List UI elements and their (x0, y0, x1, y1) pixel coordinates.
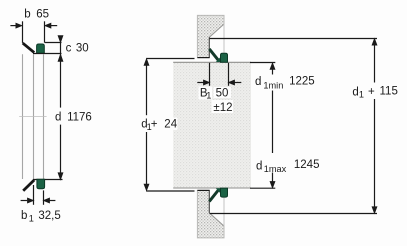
svg-text:1225: 1225 (289, 75, 315, 87)
text label d1+ 24 (141, 119, 177, 132)
text knockout pm12 (212, 100, 234, 113)
text label d1min 1225 (255, 75, 315, 90)
svg-text:1245: 1245 (294, 159, 320, 171)
seal fill bottom-right figure (216, 188, 221, 193)
cylinder silhouette line inner (43, 54, 45, 179)
seal lip top-right figure (209, 49, 219, 61)
text knockout 50 (214, 87, 232, 98)
extension line B1 right (228, 63, 230, 86)
svg-text:d: d (256, 160, 262, 172)
svg-text:+: + (151, 119, 158, 131)
svg-text:1176: 1176 (67, 112, 92, 124)
text label c 30 (66, 42, 89, 54)
seal lip bottom-left figure (23, 180, 34, 191)
text label d 1176 (55, 112, 92, 124)
svg-text:65: 65 (36, 9, 49, 21)
text label d1 + 115 (352, 85, 397, 99)
svg-text:50: 50 (216, 88, 229, 100)
extension line b right (44, 21, 46, 42)
cylinder silhouette line middle (33, 54, 35, 179)
dimension d1min-d1max line (270, 63, 275, 188)
svg-text:24: 24 (164, 119, 177, 131)
extension line d1min (250, 62, 275, 64)
seal lip bottom-right figure (209, 190, 219, 202)
extension line d1+115 bottom (210, 213, 378, 215)
seal body top-left figure (37, 44, 45, 53)
extension line b left (22, 21, 24, 43)
svg-text:c: c (66, 42, 72, 54)
text label B1 50 (200, 88, 228, 101)
svg-text:30: 30 (76, 42, 89, 54)
dimension d1+115 line (372, 39, 377, 214)
housing bore silhouette bottom (223, 197, 225, 226)
svg-text:±12: ±12 (213, 102, 232, 114)
seal body bottom-left figure (37, 179, 45, 188)
svg-text:+: + (368, 86, 375, 98)
extension line c top (45, 42, 62, 44)
svg-text:1: 1 (29, 214, 34, 224)
dimension b1 arrows (21, 198, 56, 203)
svg-text:d: d (255, 76, 261, 88)
seal bottom edge and extension c bottom (33, 53, 62, 55)
svg-text:115: 115 (380, 85, 398, 97)
svg-text:b: b (24, 9, 30, 21)
extension line B1 left (209, 63, 211, 86)
seal body bottom-right figure (221, 188, 228, 197)
svg-text:b: b (21, 210, 27, 222)
seal lip top-left figure (23, 43, 35, 53)
dimension c arrows (58, 36, 63, 62)
svg-text:1min: 1min (263, 80, 283, 90)
extension line b1 left (33, 185, 35, 205)
extension line d bottom (33, 179, 63, 181)
cylinder silhouette line outer (22, 54, 24, 179)
dimension B1 arrows (197, 80, 241, 85)
text label b 65 (24, 9, 49, 21)
svg-text:1: 1 (359, 90, 364, 100)
diameter tick (19, 116, 46, 118)
svg-text:32,5: 32,5 (38, 210, 60, 222)
dimension d1+24 line (144, 59, 149, 191)
text label d1max 1245 (256, 159, 319, 174)
seal fill top-right figure (216, 57, 221, 62)
housing block top (197, 15, 224, 57)
extension line d1+24 top (146, 58, 194, 60)
dimension b arrows (10, 23, 57, 28)
extension line d1+24 bottom (146, 190, 194, 192)
text knockout B1 (199, 87, 213, 100)
shaft (173, 62, 251, 188)
text knockout 24 (161, 118, 178, 131)
svg-text:d: d (352, 86, 358, 98)
extension line d1+115 top (210, 38, 378, 40)
svg-text:1max: 1max (264, 164, 287, 174)
svg-text:1: 1 (206, 91, 211, 101)
housing block bottom (197, 190, 224, 238)
extension line b1 right (43, 190, 45, 204)
svg-text:d: d (55, 112, 61, 124)
extension line d1max (250, 187, 275, 189)
dimension d line (58, 54, 63, 180)
seal body top-right figure (221, 53, 228, 62)
text label b1 32,5 (21, 210, 61, 223)
housing bore silhouette top (223, 24, 225, 53)
